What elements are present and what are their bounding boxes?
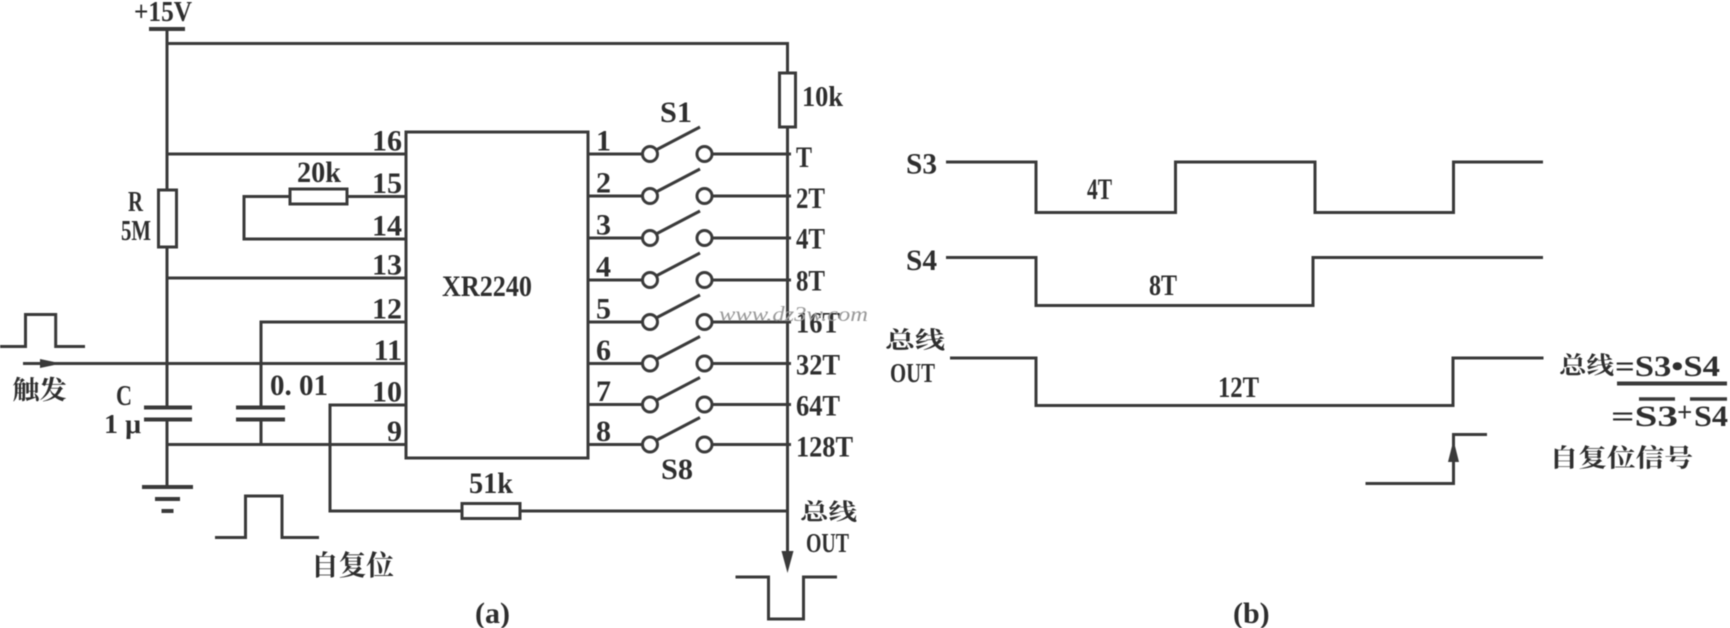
svg-text:www.dz3w.com: www.dz3w.com (719, 302, 868, 326)
resistor R 5M (159, 190, 177, 247)
svg-text:XR2240: XR2240 (442, 270, 532, 303)
svg-text:R: R (128, 186, 144, 218)
svg-text:S4: S4 (906, 244, 937, 277)
wire pin 9 (167, 443, 406, 446)
self-reset signal step waveform (1366, 435, 1488, 484)
svg-text:4T: 4T (796, 223, 825, 256)
svg-text:S8: S8 (661, 453, 693, 486)
wire top rail (167, 44, 788, 74)
svg-text:8T: 8T (796, 265, 825, 298)
wire bus vertical (786, 127, 789, 557)
wire 51k to bus (520, 510, 788, 513)
svg-text:0. 01: 0. 01 (270, 369, 328, 402)
wire 0.01 bottom to pin9 line (260, 421, 263, 445)
switch S2 row2 (588, 169, 791, 204)
svg-text:7: 7 (596, 375, 611, 408)
switch S8 row8 (588, 418, 791, 453)
arrow trigger head (40, 359, 62, 368)
wire pin 16 (167, 153, 406, 156)
waveform 总线 OUT (950, 358, 1544, 406)
svg-text:128T: 128T (796, 431, 853, 464)
svg-text:T: T (796, 141, 812, 174)
switch S5 row5 (588, 295, 791, 330)
wire pin 11 trigger line (23, 362, 406, 365)
switch S3 row3 (588, 211, 791, 246)
resistor 20k (290, 189, 347, 204)
svg-text:12T: 12T (1218, 371, 1259, 404)
formula overbar long (1617, 382, 1727, 386)
self-reset pulse waveform (215, 496, 319, 538)
capacitor 0.01 plates (236, 406, 285, 410)
svg-text:8T: 8T (1149, 269, 1177, 302)
svg-text:14: 14 (372, 210, 402, 243)
switch S1 row1 (588, 127, 791, 162)
wire C bottom to ground (166, 421, 169, 486)
svg-text:S1: S1 (660, 96, 692, 129)
svg-text:1 μ: 1 μ (104, 409, 141, 439)
formula 总线 (1560, 353, 1613, 376)
svg-text:16: 16 (372, 125, 402, 158)
trigger pulse waveform (0, 315, 85, 347)
waveform S3 (946, 162, 1543, 213)
svg-text:(a): (a) (475, 597, 510, 628)
label 触发 (13, 377, 66, 402)
ground (142, 485, 193, 489)
wire pin 15 from 20k (347, 195, 406, 198)
svg-text:51k: 51k (469, 467, 513, 500)
node 总线 label (801, 500, 856, 522)
svg-text:11: 11 (374, 334, 402, 367)
resistor 10k (780, 73, 796, 127)
svg-text:4: 4 (596, 251, 611, 284)
label 自复位信号 (1555, 445, 1693, 469)
svg-text:2: 2 (596, 167, 611, 200)
label 自复位 (316, 551, 393, 578)
svg-text:9: 9 (387, 415, 402, 448)
svg-text:8: 8 (596, 415, 611, 448)
svg-text:S4: S4 (1694, 400, 1728, 433)
switch S6 row6 (588, 337, 791, 372)
svg-text:3: 3 (596, 209, 611, 242)
capacitor C plates (144, 406, 192, 410)
arrow bus OUT head (782, 551, 794, 573)
svg-text:2T: 2T (796, 182, 825, 215)
svg-text:1: 1 (596, 125, 611, 158)
svg-text:6: 6 (596, 334, 611, 367)
svg-text:OUT: OUT (806, 528, 849, 558)
svg-text:5M: 5M (121, 215, 151, 247)
op-amp U1 XR2240 IC box (406, 132, 588, 458)
svg-text:(b): (b) (1233, 597, 1270, 628)
formula overbar S3 (1639, 397, 1675, 401)
svg-text:=S3: =S3 (1611, 400, 1678, 433)
switch S4 row4 (588, 253, 791, 288)
waveform S4 (946, 258, 1543, 306)
svg-text:15: 15 (372, 167, 402, 200)
svg-text:+: + (1677, 397, 1692, 427)
label 总线 (b) (886, 328, 944, 351)
svg-text:10: 10 (372, 376, 402, 409)
wire pin 13 (167, 277, 406, 280)
svg-text:4T: 4T (1087, 173, 1112, 206)
wire pin 10 loop down to 51k row (330, 405, 462, 511)
resistor 51k (462, 504, 520, 519)
output pulse waveform (736, 577, 838, 619)
formula overbar S4 (1690, 397, 1727, 401)
arrow self-reset head (1448, 440, 1459, 462)
svg-text:S3: S3 (906, 148, 937, 181)
wire 20k left loop to pin 14 (244, 197, 406, 240)
svg-text:5: 5 (596, 293, 611, 326)
svg-text:20k: 20k (297, 156, 341, 189)
switch S7 row7 (588, 378, 791, 413)
svg-text:32T: 32T (796, 349, 840, 382)
svg-text:64T: 64T (796, 390, 840, 423)
svg-text:12: 12 (372, 293, 402, 326)
wire +15V vertical to R top (166, 29, 169, 190)
wire R bottom to C top (166, 247, 169, 406)
power bar (149, 27, 185, 31)
svg-text:13: 13 (372, 249, 402, 282)
svg-text:OUT: OUT (890, 358, 935, 388)
wire pin 12 from 0.01 cap (261, 322, 406, 406)
svg-text:C: C (116, 380, 132, 412)
svg-text:10k: 10k (802, 81, 844, 113)
svg-text:+15V: +15V (134, 0, 192, 28)
svg-text:=S3•S4: =S3•S4 (1615, 350, 1720, 383)
